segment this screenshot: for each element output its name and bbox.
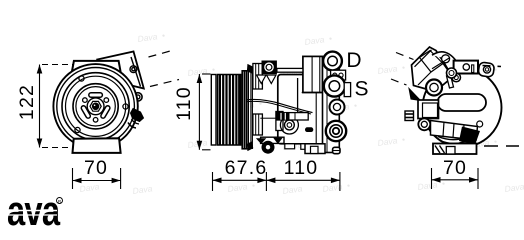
hub inner circle xyxy=(76,87,115,126)
bottom dims extension left xyxy=(212,172,214,191)
dashed line bottom right xyxy=(484,145,519,147)
hub slot top xyxy=(89,93,103,97)
pulley ribs xyxy=(220,75,239,146)
bottom base block xyxy=(73,138,121,153)
dark patch xyxy=(459,127,480,146)
bolt below boss 4 xyxy=(333,147,340,153)
pulley left flange xyxy=(211,75,216,146)
top bracket plate xyxy=(97,52,144,89)
head step line xyxy=(302,92,331,94)
right dim 70 right extension xyxy=(477,168,479,189)
dim 110 top extension xyxy=(202,73,211,75)
dashed leader lower right xyxy=(150,80,179,87)
bracket small circle xyxy=(452,73,461,82)
body bottom tab 2 xyxy=(301,144,309,150)
retaining clip top xyxy=(247,65,253,74)
pulley circle 2 xyxy=(57,68,135,146)
top block bar xyxy=(472,65,474,73)
dim 70 line xyxy=(73,180,121,182)
right dim 70 left arrow xyxy=(432,177,441,183)
slanted bar xyxy=(447,75,454,88)
dim 70 right arrow xyxy=(112,178,121,184)
bottom dims extension middle xyxy=(265,172,267,191)
dim 110 bottom arrow xyxy=(197,141,203,150)
top-left ear black block xyxy=(262,61,277,75)
svg-text:S: S xyxy=(354,78,368,101)
connector body xyxy=(277,113,309,120)
center shaft dark xyxy=(93,103,99,109)
small circle right xyxy=(477,121,483,127)
connector inner line xyxy=(294,113,296,120)
disc back edge lines xyxy=(250,71,252,150)
bottom foot xyxy=(433,144,477,155)
housing bottom block xyxy=(253,114,263,135)
square block left xyxy=(418,100,439,119)
bottom-left ear block xyxy=(261,137,284,143)
connector arm xyxy=(128,123,136,129)
dashed diagonal lower-left xyxy=(391,79,407,85)
ear gusset triangles xyxy=(257,75,267,84)
right dim 70 left extension xyxy=(431,168,433,189)
body bottom tab 1 xyxy=(285,144,295,149)
wire loop xyxy=(280,116,298,134)
bracket bolt upper xyxy=(130,66,137,73)
dashed leader upper right xyxy=(149,51,173,58)
bracket bolt ring xyxy=(426,80,442,96)
wire ground line xyxy=(260,117,276,119)
stadium slot xyxy=(438,94,487,111)
dashed diagonal upper-left xyxy=(396,53,414,60)
top bar rect xyxy=(277,68,303,72)
retaining clip bottom xyxy=(247,142,253,151)
manifold inner lines xyxy=(326,58,328,153)
center ring xyxy=(87,98,104,115)
hub hole right xyxy=(104,98,109,103)
hub slot lower-left xyxy=(100,105,111,119)
svg-text:110: 110 xyxy=(284,157,319,179)
bottom-right foot xyxy=(305,144,325,154)
pulley ribbed section frame xyxy=(218,75,241,146)
top right tab xyxy=(478,62,495,77)
hub hole bottom xyxy=(93,118,98,123)
svg-text:122: 122 xyxy=(16,84,38,120)
dim 122 top extension dashed xyxy=(42,64,73,66)
dim 110 bottom extension xyxy=(202,149,211,151)
pulley circle 3 xyxy=(62,73,129,140)
bracket inner edge line xyxy=(131,57,141,87)
pulley right disc xyxy=(242,71,248,149)
manifold column xyxy=(323,58,340,153)
hump circle xyxy=(442,55,450,63)
boss 4 xyxy=(326,121,346,141)
arrows at middle xyxy=(257,178,266,184)
body internal vertical xyxy=(297,78,299,112)
dim 122 bottom arrow xyxy=(37,139,43,148)
svg-text:70: 70 xyxy=(84,157,108,179)
svg-text:70: 70 xyxy=(443,157,467,179)
bottom dims extension right xyxy=(339,172,341,191)
arrow at right end xyxy=(331,178,340,184)
lower-left bolt xyxy=(418,118,430,130)
main circle xyxy=(423,68,502,147)
right dim 70 line xyxy=(432,179,479,181)
ava logo xyxy=(7,187,63,234)
ear V notch left xyxy=(257,139,266,144)
S port boss xyxy=(324,75,345,96)
bracket bolt lower xyxy=(134,93,142,101)
dim 70 right extension xyxy=(120,168,122,189)
hub slot lower-right xyxy=(81,105,92,119)
dashed line top right xyxy=(483,66,502,67)
bottom dim line xyxy=(213,179,340,181)
clutch band xyxy=(438,132,478,140)
left striped tab xyxy=(405,111,414,121)
hump over block xyxy=(432,52,456,61)
svg-text:67.6: 67.6 xyxy=(225,157,268,179)
gasket plate xyxy=(331,70,346,80)
D port boss xyxy=(323,52,342,71)
dim 110 line xyxy=(198,74,200,150)
hub plate circle xyxy=(73,84,118,129)
connector black half xyxy=(277,113,290,120)
watermark row 1 xyxy=(79,30,524,196)
ear V notch right xyxy=(274,138,282,143)
wire bracket xyxy=(276,112,283,131)
dim 110 top arrow xyxy=(197,74,203,83)
hub hole left xyxy=(83,98,88,103)
dim 122 bottom extension dashed xyxy=(42,147,70,149)
S side tab xyxy=(344,83,350,97)
clutch wire outer xyxy=(246,99,313,112)
svg-text:ava: ava xyxy=(7,187,61,232)
dim 122 line xyxy=(39,65,41,148)
top-left bracket outer xyxy=(412,47,453,92)
disc inner lines xyxy=(243,71,245,149)
bracket edge double line xyxy=(415,50,432,67)
boss 3 xyxy=(330,100,345,115)
dim 70 left arrow xyxy=(73,178,82,184)
pulley circle 4 xyxy=(66,76,126,136)
arrow at left end xyxy=(213,178,222,184)
center hex xyxy=(90,101,101,111)
ear circle xyxy=(264,62,275,73)
body main xyxy=(278,75,331,144)
ring bolt 1 (121 deg) xyxy=(79,76,84,81)
clutch wire inner xyxy=(246,101,311,114)
wire grommet xyxy=(285,120,295,130)
pulley outer circle xyxy=(53,64,137,148)
dim 70 left extension xyxy=(72,168,74,189)
housing top block xyxy=(253,64,263,90)
head block xyxy=(303,56,323,92)
svg-text:110: 110 xyxy=(173,86,195,121)
ring bolt 3 (357 deg) xyxy=(123,104,128,109)
right side connector blob xyxy=(131,109,144,122)
lower assembly slab xyxy=(431,121,478,141)
svg-text:D: D xyxy=(346,49,361,72)
hump diagonal xyxy=(432,58,450,69)
ear bolt dark ring xyxy=(262,141,274,153)
ring bolt 2 (239 deg) xyxy=(75,127,80,132)
bracket inner lines xyxy=(418,51,453,86)
right dim 70 right arrow xyxy=(469,177,478,183)
top block xyxy=(454,61,478,74)
top block circle xyxy=(463,64,469,70)
bolt below block xyxy=(447,68,457,78)
head inner line xyxy=(311,56,313,92)
dim 122 top arrow xyxy=(37,65,43,74)
connector small oval xyxy=(305,127,313,132)
top mounting block xyxy=(71,61,121,75)
bracket bottom wedge xyxy=(409,89,421,101)
